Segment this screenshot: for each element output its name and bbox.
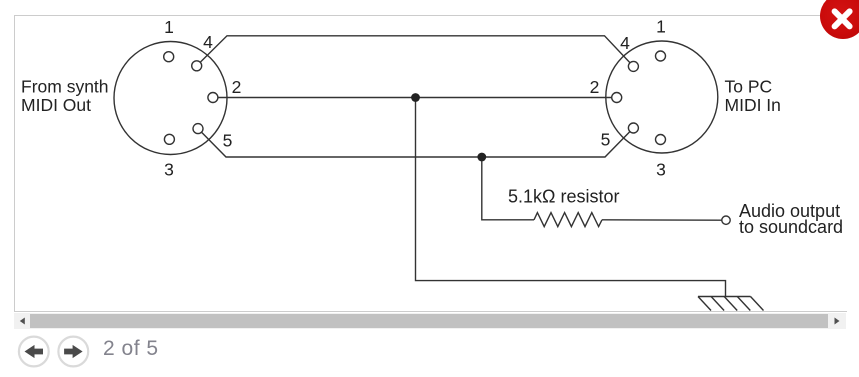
svg-text:to soundcard: to soundcard — [739, 217, 843, 237]
next button — [58, 337, 88, 367]
label To PC MIDI In — [725, 77, 781, 116]
svg-text:MIDI Out: MIDI Out — [21, 95, 91, 115]
terminal: audio output (open circle) — [722, 216, 730, 224]
J1 pin 1 — [164, 52, 174, 62]
J2 pin 5 — [628, 123, 638, 133]
label From synth MIDI Out — [21, 77, 109, 116]
svg-text:3: 3 — [164, 160, 174, 180]
svg-text:4: 4 — [203, 32, 213, 52]
J2 pin 4 — [628, 61, 638, 71]
close button (red X) — [820, 0, 859, 39]
wire: resistor branch from node B — [482, 157, 534, 220]
node A (junction dot on pin2 net) — [411, 93, 420, 102]
connector J1 shell (From synth MIDI Out) — [114, 42, 227, 155]
J1 pin labels — [164, 17, 241, 180]
J1 pin 5 — [193, 124, 203, 134]
node B (junction dot on pin5 net) — [477, 153, 486, 162]
resistor R1 5.1k — [534, 213, 602, 227]
svg-text:From synth: From synth — [21, 77, 109, 97]
ground (earth symbol) — [698, 297, 764, 311]
wire: ground branch from node A — [416, 98, 726, 297]
svg-text:4: 4 — [620, 33, 630, 53]
wire: bottom net (pin5 to pin5) — [198, 128, 633, 157]
svg-text:5: 5 — [601, 130, 611, 150]
connector J2 shell (To PC MIDI In) — [606, 41, 718, 153]
J1 pin 2 — [208, 93, 218, 103]
content box frame — [14, 15, 847, 312]
svg-text:3: 3 — [656, 160, 666, 180]
prev button — [19, 337, 49, 367]
wire: middle net (pin2 to pin2) — [213, 97, 617, 99]
wire: top net (pin4 left to pin4 right) — [197, 36, 634, 67]
nav buttons — [14, 332, 134, 372]
wire: resistor to audio terminal — [602, 219, 722, 221]
svg-text:5.1kΩ resistor: 5.1kΩ resistor — [508, 186, 620, 206]
J1 pin 4 — [192, 61, 202, 71]
J2 pin 2 — [612, 93, 622, 103]
label Audio output to soundcard — [739, 201, 843, 237]
page indicator 2 of 5 — [103, 337, 159, 361]
svg-text:2: 2 — [590, 77, 600, 97]
svg-text:2: 2 — [232, 77, 242, 97]
J2 pin 3 — [656, 135, 666, 145]
svg-text:1: 1 — [164, 17, 174, 37]
svg-text:5: 5 — [223, 131, 233, 151]
svg-text:1: 1 — [656, 17, 666, 37]
svg-text:MIDI In: MIDI In — [725, 95, 781, 115]
J1 pin 3 — [164, 134, 174, 144]
horizontal scrollbar — [14, 313, 846, 329]
svg-text:To PC: To PC — [725, 77, 773, 97]
J2 pin labels — [590, 17, 666, 180]
J2 pin 1 — [656, 51, 666, 61]
